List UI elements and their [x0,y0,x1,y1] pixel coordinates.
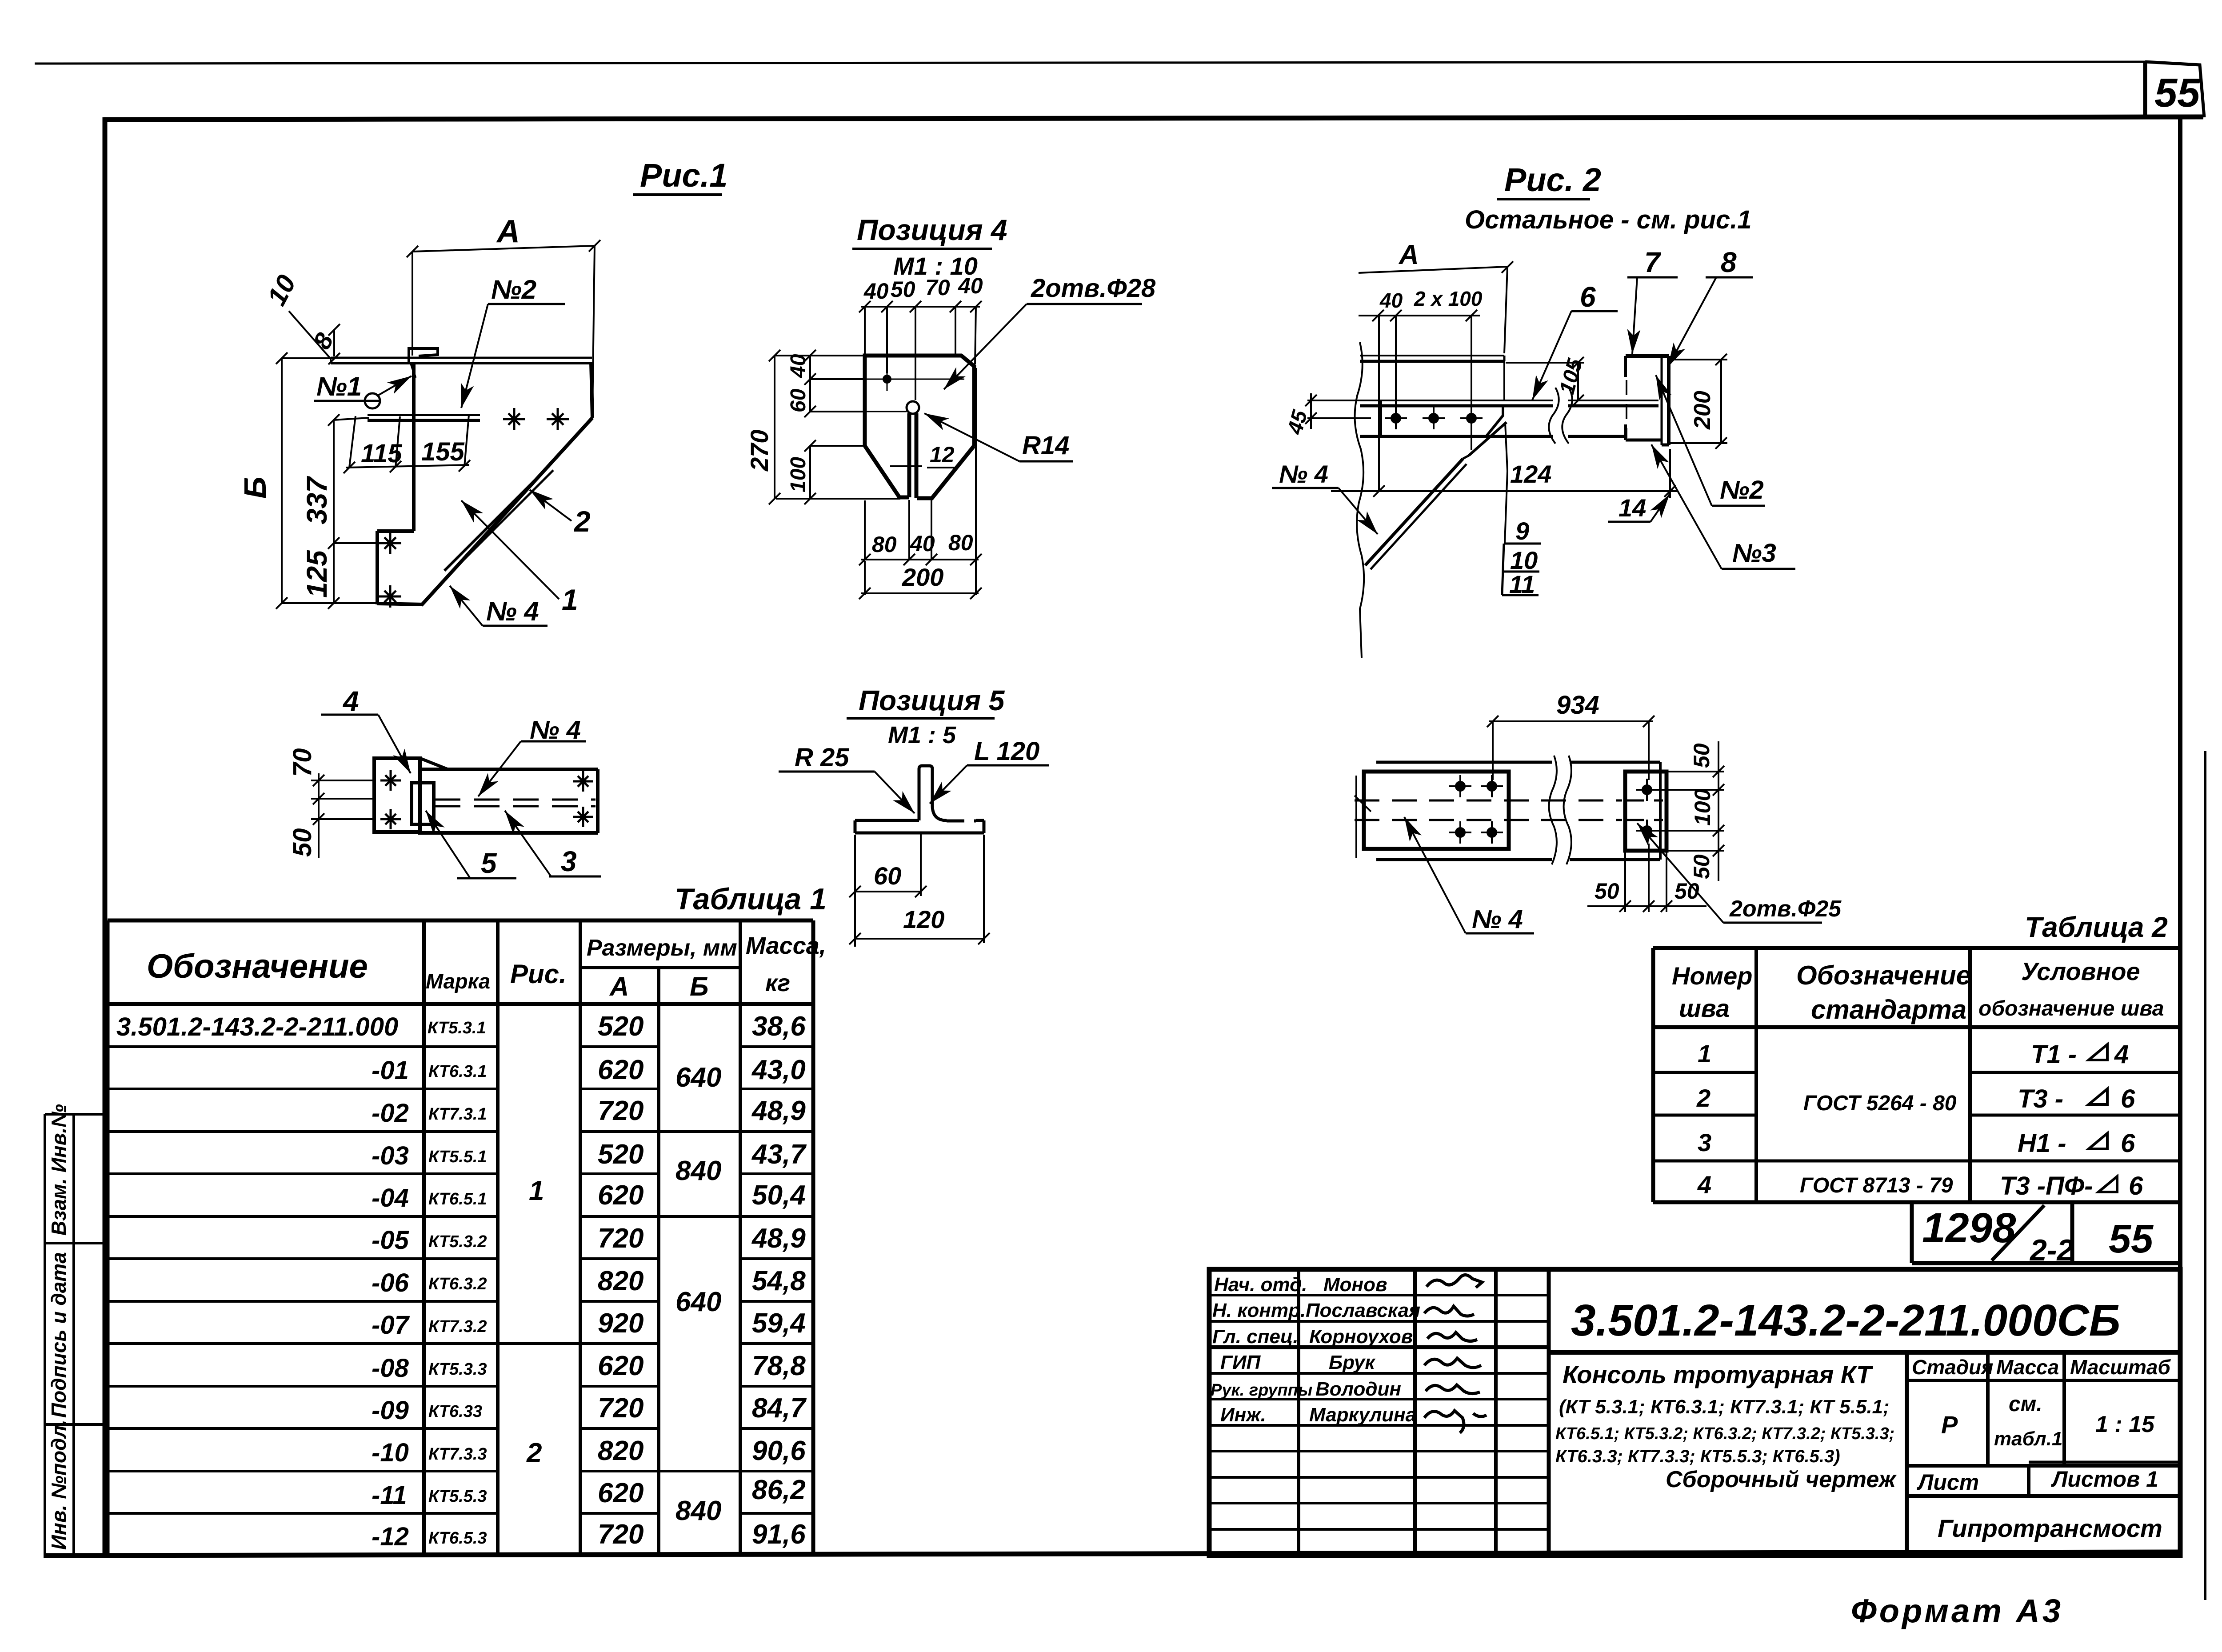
hidden bar dashed [435,799,595,801]
svg-text:Брук: Брук [1329,1352,1376,1373]
bracket right edge [591,362,592,418]
svg-text:Таблица 2: Таблица 2 [2025,911,2168,943]
svg-text:Стадия: Стадия [1912,1356,1993,1379]
svg-text:620: 620 [598,1351,643,1381]
svg-text:Гипротрансмост: Гипротрансмост [1938,1514,2162,1542]
svg-text:-07: -07 [372,1311,410,1340]
TITLE BLOCK [1209,1269,2180,1556]
svg-text:№ 4: № 4 [486,596,539,626]
sheet number text 55 [2154,70,2201,116]
left dim 270 [769,350,900,504]
svg-text:кг: кг [765,970,790,996]
svg-text:Корноухов: Корноухов [1309,1326,1413,1348]
svg-text:4: 4 [342,685,359,717]
svg-text:Подпись и дата: Подпись и дата [47,1252,70,1418]
dashed hidden lines [1355,800,1622,802]
svg-text:КТ5.3.3: КТ5.3.3 [428,1360,487,1379]
svg-text:337: 337 [301,476,333,524]
mid break lines [1549,756,1557,864]
svg-text:70: 70 [288,748,317,777]
svg-text:155: 155 [421,437,465,466]
svg-text:КТ6.33: КТ6.33 [428,1402,482,1421]
svg-text:Р: Р [1941,1411,1958,1439]
left break tick [1355,796,1371,812]
svg-text:R 25: R 25 [795,743,849,772]
svg-text:8: 8 [1721,246,1737,278]
svg-text:Марка: Марка [426,969,490,993]
svg-text:6: 6 [2121,1129,2135,1158]
frame right border [2178,117,2182,1557]
svg-text:КТ5.3.2: КТ5.3.2 [428,1232,487,1251]
left break line [1355,342,1364,658]
top thin rule [35,62,2145,64]
weld designation row 1: Т1-triangle-4 [2000,1040,2143,1200]
svg-text:50,4: 50,4 [752,1180,806,1211]
svg-text:90,6: 90,6 [752,1436,806,1466]
svg-text:Размеры, мм: Размеры, мм [587,935,737,961]
svg-text:620: 620 [598,1055,643,1085]
svg-text:640: 640 [675,1287,721,1317]
svg-text:48,9: 48,9 [751,1096,806,1126]
centerline + extension lines [849,833,990,947]
svg-text:Позиция 5: Позиция 5 [859,684,1005,716]
svg-text:Обозначение: Обозначение [147,948,368,985]
inner level lines [865,379,964,380]
svg-text:КТ6.5.1; КТ5.3.2; КТ6.3.2; КТ7: КТ6.5.1; КТ5.3.2; КТ6.3.2; КТ7.3.2; КТ5.… [1555,1424,1894,1443]
svg-text:3.501.2-143.2-2-211.000: 3.501.2-143.2-2-211.000 [116,1012,398,1041]
main bar element 6 [1360,400,1659,401]
svg-text:38,6: 38,6 [752,1011,806,1042]
svg-text:Монов: Монов [1323,1274,1387,1296]
hole dot [883,375,891,384]
signatures squiggles [1424,1275,1487,1433]
svg-text:920: 920 [598,1308,643,1339]
svg-text:50: 50 [1689,743,1714,768]
frame top border [104,117,2203,120]
rail strip element 2 (double diagonal) [444,466,549,571]
svg-text:Б: Б [238,476,272,499]
svg-text:-05: -05 [372,1226,409,1255]
svg-text:50: 50 [1689,854,1714,879]
left dims 40 60 [804,350,865,417]
anchor plate left [1364,772,1509,849]
svg-text:720: 720 [598,1096,643,1126]
svg-text:12: 12 [930,442,955,467]
svg-text:84,7: 84,7 [752,1393,807,1424]
svg-text:80: 80 [948,530,973,555]
svg-text:КТ7.3.2: КТ7.3.2 [428,1317,487,1336]
svg-text:6: 6 [1580,281,1596,313]
right part lines [1549,1350,2180,1355]
header lines [108,1002,813,1006]
svg-text:№2: №2 [491,275,536,304]
svg-text:Б: Б [690,972,708,1001]
top dimension chain 40 50 70 40 [859,301,982,400]
dim 45 [1305,393,1381,429]
dim 60 [855,891,921,892]
svg-text:78,8: 78,8 [752,1351,806,1381]
table 1 data text [116,1012,410,1551]
svg-text:КТ6.5.1: КТ6.5.1 [428,1190,487,1208]
right dims 50 100 50 [1647,741,1724,881]
svg-text:R14: R14 [1022,431,1069,460]
svg-text:№ 4: № 4 [530,716,581,744]
svg-text:КТ6.3.2: КТ6.3.2 [428,1275,487,1293]
diagonal brace double line [1365,459,1463,565]
svg-text:520: 520 [598,1139,643,1170]
svg-text:1: 1 [562,583,578,616]
svg-text:№ 4: № 4 [1472,905,1523,934]
svg-text:Володин: Володин [1315,1378,1401,1400]
svg-text:60: 60 [874,862,901,890]
svg-text:70: 70 [925,275,950,300]
svg-text:2: 2 [1696,1084,1710,1112]
dimension 125 [328,543,340,609]
svg-text:-11: -11 [372,1481,407,1510]
break symbol on bar [1549,388,1572,444]
bar overlay left end [1379,401,1382,436]
svg-text:Рис.: Рис. [510,959,567,989]
bracket step [377,529,414,533]
svg-text:Т3 -: Т3 - [2018,1084,2063,1113]
svg-text:-01: -01 [372,1056,409,1085]
svg-text:А: А [1398,240,1419,270]
svg-text:120: 120 [903,905,944,933]
svg-text:Лист: Лист [1917,1470,1979,1495]
svg-text:КТ7.3.1: КТ7.3.1 [428,1105,487,1124]
svg-text:КТ5.3.1: КТ5.3.1 [428,1019,486,1037]
signature labels [1211,1274,1420,1426]
TABLE 2 [238,157,2180,1629]
svg-text:55: 55 [2109,1217,2154,1261]
svg-text:стандарта: стандарта [1811,995,1966,1024]
svg-text:(КТ 5.3.1; КТ6.3.1; КТ7.3.1;: (КТ 5.3.1; КТ6.3.1; КТ7.3.1; КТ 5.5.1; [1559,1396,1890,1418]
svg-text:86,2: 86,2 [752,1475,806,1505]
svg-text:14: 14 [1619,494,1646,522]
svg-text:Формат А3: Формат А3 [1851,1592,2063,1629]
svg-text:Сборочный чертеж: Сборочный чертеж [1666,1467,1897,1492]
svg-text:934: 934 [1556,691,1599,720]
svg-text:3.501.2-143.2-2-211.000СБ: 3.501.2-143.2-2-211.000СБ [1571,1296,2120,1345]
svg-text:-10: -10 [372,1438,409,1467]
svg-text:820: 820 [598,1436,643,1466]
gusset plate outline [865,356,974,498]
bottom dims 50 50 [1587,844,1706,912]
svg-text:7: 7 [1644,246,1662,278]
svg-text:Маркулина: Маркулина [1309,1404,1416,1426]
svg-text:ГОСТ 5264 - 80: ГОСТ 5264 - 80 [1803,1092,1957,1115]
svg-text:Н. контр.: Н. контр. [1212,1300,1306,1321]
svg-text:Гл. спец.: Гл. спец. [1212,1326,1299,1348]
svg-text:40: 40 [958,273,983,298]
row lines: designation, marka, A, massa columns every row [108,1047,813,1513]
svg-text:Рис.1: Рис.1 [640,157,727,194]
svg-text:1: 1 [529,1176,544,1206]
svg-text:59,4: 59,4 [752,1308,806,1339]
console beam 3 [418,768,598,771]
svg-text:6: 6 [2121,1084,2135,1113]
svg-text:720: 720 [598,1519,643,1550]
svg-text:Масштаб: Масштаб [2070,1356,2171,1379]
svg-text:640: 640 [675,1062,721,1093]
bottom dim 200 [859,561,982,599]
left margin labels [47,1104,70,1550]
stage / mass / scale [1912,1356,2171,1542]
svg-text:50: 50 [1595,879,1619,904]
dims 70 / 50 [311,773,374,858]
svg-text:720: 720 [598,1393,643,1424]
dims 40 2x100 [1359,310,1480,491]
svg-text:40: 40 [1379,289,1403,312]
svg-text:3: 3 [1698,1128,1711,1156]
dimension 337 [328,414,383,549]
dim 105 [1506,357,1584,406]
svg-text:Масса,: Масса, [746,932,826,959]
svg-text:№3: №3 [1732,539,1776,568]
top-left tab detail [409,348,438,364]
svg-text:табл.1: табл.1 [1994,1428,2062,1450]
svg-text:43,0: 43,0 [751,1055,806,1085]
svg-text:91,6: 91,6 [752,1519,806,1550]
bracket top plate (double line) [331,357,592,359]
thin top-left plate left end tick [330,358,332,363]
svg-text:4: 4 [2114,1040,2129,1069]
svg-text:ГОСТ 8713 - 79: ГОСТ 8713 - 79 [1800,1174,1953,1197]
end plate right [1625,772,1666,851]
svg-text:100: 100 [1690,788,1715,826]
svg-text:720: 720 [598,1223,643,1254]
dimension Б [276,352,379,609]
svg-text:-06: -06 [372,1268,409,1297]
bracket left vertical plate edge [412,364,416,531]
svg-text:Пославская: Пославская [1306,1300,1420,1321]
svg-text:40: 40 [787,354,810,378]
svg-text:КТ6.3.1: КТ6.3.1 [428,1062,487,1081]
svg-text:115: 115 [361,439,402,468]
svg-text:9: 9 [1515,517,1529,545]
signature area verticals [1297,1269,1300,1556]
svg-text:48,9: 48,9 [751,1223,806,1254]
stiffener 5 [412,783,434,824]
svg-text:100: 100 [787,457,810,492]
angle profile: vertical leg [855,766,984,833]
table 2 data [1696,1040,1957,1199]
svg-text:80: 80 [872,532,897,557]
svg-text:-08: -08 [372,1354,409,1383]
svg-text:М1 : 5: М1 : 5 [888,722,956,748]
svg-text:Рис. 2: Рис. 2 [1504,161,1601,198]
table 1 header text [147,932,826,1001]
bolt marks [380,770,593,829]
dim 200 fig2 [1670,354,1727,449]
fig1 brace label [1272,460,1378,534]
svg-text:2отв.Ф28: 2отв.Ф28 [1031,274,1156,303]
svg-text:125: 125 [301,550,333,598]
svg-text:2 х 100: 2 х 100 [1414,287,1483,310]
svg-text:3: 3 [561,845,577,877]
svg-text:А: А [496,214,520,249]
svg-text:200: 200 [902,563,943,591]
svg-text:Т1 -: Т1 - [2031,1040,2077,1069]
frame left border [103,117,108,1557]
svg-text:45: 45 [1283,407,1312,437]
dim A fig2 [1359,261,1513,353]
svg-text:Позиция 4: Позиция 4 [857,213,1007,246]
svg-text:шва: шва [1679,994,1730,1022]
svg-text:№ 4: № 4 [1279,460,1328,488]
left margin stamp boxes [45,1114,105,1555]
bolt dots [1449,775,1658,844]
dimension A [407,240,600,416]
name cell [1555,1360,1897,1492]
svg-text:1298: 1298 [1922,1204,2016,1252]
svg-text:Номер: Номер [1672,962,1752,990]
svg-text:54,8: 54,8 [752,1266,806,1296]
svg-text:5: 5 [481,847,497,879]
slot hole circle [907,401,919,414]
svg-text:Взам. Инв.№: Взам. Инв.№ [47,1104,70,1236]
left dim 100 [804,440,865,504]
svg-text:50: 50 [891,277,915,302]
svg-text:40: 40 [910,531,935,556]
svg-text:КТ5.5.3: КТ5.5.3 [428,1487,487,1506]
svg-text:2: 2 [526,1438,542,1468]
dimension 8 [328,324,340,364]
horizontal flange [855,819,919,822]
svg-text:Рук. группы: Рук. группы [1211,1381,1312,1400]
svg-text:1 : 15: 1 : 15 [2095,1412,2155,1437]
dim 120 [855,938,984,940]
bolt marks upper [379,408,569,608]
gusset under bar [1360,435,1486,438]
svg-text:10: 10 [261,270,301,310]
bracket bottom edge [377,604,423,604]
svg-text:1: 1 [1698,1040,1711,1068]
bracket lower-left vertical [376,531,379,604]
signature area row lines [1209,1295,1549,1529]
bolt dots on bar [1385,407,1483,429]
dim 934 [1487,716,1655,780]
frame bottom border [44,1552,2182,1556]
svg-text:Инв. №подл.: Инв. №подл. [47,1420,70,1550]
svg-text:124: 124 [1510,460,1551,488]
svg-text:820: 820 [598,1266,643,1296]
svg-text:2отв.Ф25: 2отв.Ф25 [1729,896,1842,922]
svg-text:Листов 1: Листов 1 [2051,1467,2158,1492]
svg-text:2: 2 [573,505,591,538]
svg-text:520: 520 [598,1011,643,1042]
channel element at right [1626,356,1669,445]
bottom dims 80 40 80 [859,368,982,595]
bracket long diagonal edge [421,418,592,605]
svg-text:-12: -12 [372,1522,409,1551]
svg-text:620: 620 [598,1180,643,1211]
svg-text:4: 4 [1697,1171,1711,1199]
anchor plate 4 [374,758,420,832]
svg-text:840: 840 [675,1496,721,1526]
svg-text:55: 55 [2154,70,2201,116]
svg-text:40: 40 [863,279,889,304]
beam outline [1376,761,1552,764]
svg-text:200: 200 [1690,391,1715,430]
svg-text:-04: -04 [372,1184,409,1212]
right margin crease line [2204,751,2206,1600]
svg-text:обозначение шва: обозначение шва [1978,997,2164,1020]
svg-text:КТ7.3.3: КТ7.3.3 [428,1445,487,1464]
svg-text:Условное: Условное [2021,957,2140,985]
svg-text:L 120: L 120 [974,737,1039,766]
svg-text:КТ6.5.3: КТ6.5.3 [428,1529,487,1548]
svg-text:60: 60 [787,388,810,412]
svg-text:см.: см. [2009,1392,2042,1416]
svg-text:КТ6.3.3; КТ7.3.3; КТ5.5.3;: КТ6.3.3; КТ7.3.3; КТ5.5.3; КТ6.5.3) [1555,1447,1840,1466]
dim 124 [1331,449,1678,498]
svg-text:620: 620 [598,1478,643,1508]
svg-text:Обозначение: Обозначение [1796,960,1971,990]
svg-text:Н1 -: Н1 - [2018,1129,2066,1158]
svg-text:Нач. отд.: Нач. отд. [1214,1274,1307,1296]
outer and verticals [108,919,813,923]
top chord plate double line [1360,355,1504,356]
svg-text:270: 270 [745,430,773,472]
svg-text:-02: -02 [372,1099,409,1128]
svg-text:Остальное - см. рис.1: Остальное - см. рис.1 [1465,205,1752,234]
svg-text:№2: №2 [1720,476,1764,504]
svg-text:43,7: 43,7 [751,1139,807,1170]
svg-text:6: 6 [2129,1172,2143,1200]
svg-text:2-2: 2-2 [2029,1233,2074,1267]
svg-text:Т3 -ПФ-: Т3 -ПФ- [2000,1172,2093,1200]
dimensions 115 / 155 [344,415,470,473]
svg-text:-03: -03 [372,1141,409,1170]
svg-text:Инж.: Инж. [1220,1404,1266,1426]
svg-text:-09: -09 [372,1396,409,1425]
svg-text:Масса: Масса [1996,1356,2059,1379]
middle shelf plate [368,414,480,416]
svg-text:ГИП: ГИП [1220,1352,1261,1373]
svg-text:Таблица 1: Таблица 1 [675,882,827,916]
svg-text:№1: №1 [316,372,362,401]
svg-text:50: 50 [288,828,317,857]
sheet number box 55 [2145,62,2204,117]
svg-text:А: А [609,972,629,1001]
table 2 header text [1672,957,2164,1024]
document number stamp [1912,1202,2180,1267]
svg-text:КТ5.5.1: КТ5.5.1 [428,1148,487,1166]
svg-text:840: 840 [675,1156,721,1186]
svg-text:Консоль тротуарная КТ: Консоль тротуарная КТ [1563,1360,1874,1388]
